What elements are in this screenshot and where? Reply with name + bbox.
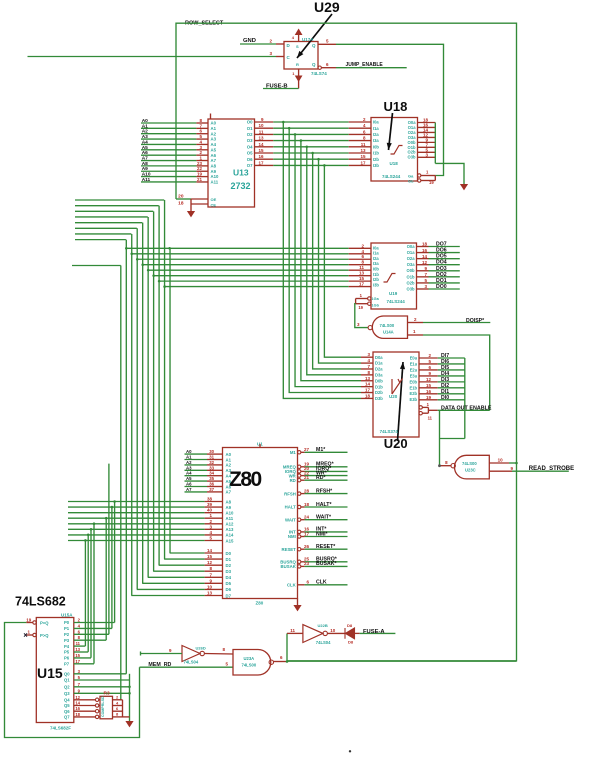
svg-text:GND: GND [243, 38, 256, 44]
svg-text:A12: A12 [226, 522, 234, 527]
svg-text:23: 23 [197, 161, 203, 166]
svg-text:I1b: I1b [373, 272, 379, 277]
svg-text:O2a: O2a [407, 256, 415, 261]
svg-text:U29: U29 [314, 0, 340, 15]
svg-text:Q: Q [312, 62, 316, 67]
svg-text:A7: A7 [142, 156, 148, 162]
svg-text:19: 19 [358, 305, 363, 310]
svg-text:U19: U19 [389, 291, 398, 296]
svg-text:38: 38 [207, 497, 213, 502]
svg-text:39: 39 [207, 502, 213, 507]
svg-text:U15: U15 [37, 665, 63, 681]
svg-text:2732: 2732 [231, 181, 251, 191]
svg-text:Gb: Gb [408, 179, 414, 184]
svg-text:U20: U20 [389, 394, 398, 399]
svg-text:15: 15 [359, 276, 365, 281]
svg-text:32: 32 [209, 460, 214, 465]
svg-text:A10: A10 [142, 172, 151, 178]
svg-text:15: 15 [207, 554, 213, 559]
svg-text:E1b: E1b [409, 385, 417, 390]
svg-text:17: 17 [365, 388, 371, 393]
svg-text:A5: A5 [186, 476, 192, 481]
svg-text:36: 36 [209, 482, 214, 487]
svg-text:19: 19 [26, 618, 32, 623]
svg-text:14: 14 [422, 254, 428, 259]
svg-text:I3a: I3a [373, 261, 379, 266]
svg-text:1Ga: 1Ga [372, 297, 380, 301]
svg-text:I0a: I0a [373, 245, 379, 250]
svg-text:A15: A15 [226, 538, 234, 543]
svg-text:O2b: O2b [407, 280, 415, 285]
svg-text:I0b: I0b [373, 144, 379, 149]
svg-text:D8: D8 [347, 623, 353, 628]
svg-text:D8: D8 [348, 640, 354, 645]
svg-text:RFSH: RFSH [284, 491, 296, 496]
svg-text:A2: A2 [226, 463, 232, 468]
svg-text:U20: U20 [384, 436, 408, 451]
svg-text:A5: A5 [211, 147, 217, 152]
svg-text:O1a: O1a [407, 250, 415, 255]
svg-text:13: 13 [75, 647, 80, 652]
svg-text:74LS374: 74LS374 [380, 429, 399, 434]
svg-text:16: 16 [426, 389, 432, 394]
svg-text:JUMP_ENABLE: JUMP_ENABLE [346, 62, 384, 68]
svg-text:D2b: D2b [375, 390, 383, 395]
svg-text:A9: A9 [211, 169, 217, 174]
svg-text:A1: A1 [226, 457, 232, 462]
svg-text:17: 17 [258, 160, 264, 165]
svg-text:74LS00: 74LS00 [462, 461, 477, 466]
svg-text:74LS04: 74LS04 [316, 640, 331, 645]
svg-text:12: 12 [207, 560, 213, 565]
svg-text:U23A: U23A [244, 656, 255, 661]
svg-text:E3a: E3a [410, 373, 418, 378]
svg-text:I0a: I0a [373, 120, 379, 125]
svg-text:22: 22 [197, 166, 203, 171]
svg-text:16: 16 [258, 154, 264, 159]
svg-text:I2b: I2b [373, 157, 379, 162]
svg-text:O5: O5 [247, 151, 253, 156]
svg-text:28: 28 [304, 488, 310, 493]
svg-text:NMI*: NMI* [316, 531, 329, 537]
svg-text:U22B: U22B [318, 623, 328, 628]
svg-text:10: 10 [330, 628, 336, 633]
svg-text:19: 19 [426, 395, 432, 400]
svg-text:R: R [296, 62, 299, 67]
svg-text:Q2: Q2 [64, 685, 70, 690]
svg-text:O3b: O3b [407, 286, 415, 291]
svg-text:A2: A2 [186, 460, 192, 465]
svg-text:CLK: CLK [316, 580, 327, 586]
svg-text:U23C: U23C [465, 468, 476, 473]
svg-text:74LS682F: 74LS682F [50, 726, 71, 731]
svg-text:E2a: E2a [410, 367, 418, 372]
svg-text:17: 17 [359, 282, 365, 287]
svg-text:RFSH*: RFSH* [316, 488, 333, 494]
svg-text:P0: P0 [64, 620, 70, 625]
svg-text:74LS00: 74LS00 [242, 663, 257, 668]
svg-text:RD*: RD* [316, 475, 326, 481]
svg-text:NMI: NMI [288, 534, 296, 539]
svg-text:Q3: Q3 [64, 691, 70, 696]
svg-text:D2a: D2a [375, 367, 383, 372]
svg-text:O1: O1 [247, 126, 253, 131]
svg-text:D0a: D0a [375, 355, 383, 360]
svg-text:A4: A4 [142, 139, 148, 145]
svg-text:Q7: Q7 [64, 715, 70, 720]
svg-text:FUSE-A: FUSE-A [363, 629, 385, 635]
svg-text:D7: D7 [226, 593, 232, 598]
svg-text:11: 11 [361, 142, 366, 147]
svg-text:A0: A0 [211, 121, 217, 126]
svg-text:P5: P5 [64, 650, 70, 655]
svg-text:12: 12 [426, 377, 432, 382]
svg-text:P=Q: P=Q [40, 621, 49, 626]
svg-text:13: 13 [258, 136, 264, 141]
svg-text:Q0: Q0 [64, 672, 70, 677]
svg-text:D5: D5 [226, 581, 232, 586]
svg-text:18: 18 [178, 201, 184, 207]
svg-text:A10: A10 [226, 510, 234, 515]
svg-text:13: 13 [207, 590, 213, 595]
svg-text:DATA OUT ENABLE: DATA OUT ENABLE [441, 406, 492, 412]
svg-text:D3b: D3b [375, 396, 383, 401]
svg-text:A7: A7 [226, 490, 232, 495]
svg-text:I0b: I0b [373, 266, 379, 271]
svg-text:A1: A1 [211, 126, 217, 131]
svg-text:12: 12 [75, 695, 80, 700]
svg-text:A3: A3 [211, 137, 217, 142]
svg-text:HALT: HALT [285, 505, 297, 510]
svg-text:D3: D3 [226, 569, 232, 574]
svg-text:13: 13 [360, 148, 366, 153]
svg-text:A2: A2 [211, 131, 217, 136]
svg-text:A9: A9 [226, 505, 232, 510]
svg-text:A8: A8 [142, 161, 148, 167]
svg-text:A10: A10 [211, 174, 219, 179]
svg-text:A7: A7 [211, 158, 217, 163]
svg-text:O0a: O0a [407, 244, 415, 249]
svg-text:A6: A6 [211, 153, 217, 158]
svg-text:26: 26 [304, 544, 310, 549]
svg-text:COMPRLSD: COMPRLSD [101, 696, 105, 717]
svg-text:E0a: E0a [410, 355, 418, 360]
svg-text:O3b: O3b [408, 155, 416, 160]
svg-text:A3: A3 [186, 465, 192, 470]
svg-text:Q6: Q6 [64, 709, 70, 714]
svg-text:10: 10 [207, 584, 213, 589]
svg-text:14: 14 [258, 142, 264, 147]
svg-text:I3b: I3b [373, 282, 379, 287]
svg-text:I1b: I1b [373, 151, 379, 156]
svg-text:A8: A8 [211, 163, 217, 168]
svg-text:CE: CE [211, 203, 217, 208]
svg-text:11: 11 [428, 416, 433, 421]
svg-text:74LS682: 74LS682 [15, 595, 66, 609]
svg-text:74LS244: 74LS244 [387, 299, 406, 304]
svg-text:P>Q: P>Q [40, 633, 49, 638]
svg-text:Z80: Z80 [229, 468, 262, 491]
svg-text:I2a: I2a [373, 132, 379, 137]
svg-text:74LS244: 74LS244 [382, 174, 401, 179]
svg-text:I1a: I1a [373, 251, 379, 256]
svg-text:A4: A4 [211, 142, 217, 147]
svg-text:19: 19 [429, 180, 434, 185]
svg-text:D3a: D3a [375, 372, 383, 377]
svg-text:10: 10 [498, 458, 504, 463]
svg-text:D0: D0 [226, 551, 232, 556]
svg-text:A3: A3 [226, 468, 232, 473]
svg-text:P4: P4 [64, 644, 70, 649]
svg-text:HALT*: HALT* [316, 502, 332, 508]
svg-text:WAIT: WAIT [285, 517, 296, 522]
svg-text:35: 35 [209, 476, 214, 481]
svg-text:18: 18 [422, 242, 428, 247]
svg-text:17: 17 [360, 160, 366, 165]
svg-text:15: 15 [426, 383, 432, 388]
svg-text:10: 10 [258, 123, 264, 128]
svg-text:13: 13 [359, 271, 365, 276]
svg-text:11: 11 [290, 628, 295, 633]
svg-text:A6: A6 [186, 482, 192, 487]
svg-text:U14A: U14A [383, 330, 394, 335]
svg-text:16: 16 [422, 248, 428, 253]
svg-text:13: 13 [365, 376, 371, 381]
svg-text:24: 24 [304, 515, 310, 520]
svg-text:E1a: E1a [410, 361, 418, 366]
svg-text:A0: A0 [226, 452, 232, 457]
svg-text:16: 16 [75, 706, 80, 711]
svg-text:U13: U13 [233, 168, 249, 178]
svg-text:A1: A1 [142, 123, 148, 129]
svg-text:A13: A13 [226, 527, 234, 532]
svg-text:34: 34 [209, 471, 214, 476]
svg-text:U15A: U15A [61, 612, 73, 617]
svg-text:14: 14 [75, 701, 80, 706]
svg-text:11: 11 [359, 265, 364, 270]
svg-text:37: 37 [209, 487, 214, 492]
svg-text:21: 21 [197, 177, 203, 182]
svg-text:A11: A11 [226, 516, 234, 521]
svg-text:P1: P1 [64, 626, 70, 631]
svg-text:O3a: O3a [407, 262, 415, 267]
svg-text:I3a: I3a [373, 138, 379, 143]
svg-text:R3: R3 [104, 691, 110, 697]
svg-text:A5: A5 [142, 145, 148, 151]
svg-text:D6: D6 [226, 587, 232, 592]
svg-text:A0: A0 [142, 118, 148, 124]
svg-text:D2: D2 [226, 563, 232, 568]
svg-text:E2b: E2b [409, 391, 417, 396]
svg-text:A11: A11 [142, 177, 151, 183]
svg-text:21: 21 [304, 475, 310, 480]
svg-text:P6: P6 [64, 656, 70, 661]
svg-text:D1a: D1a [375, 361, 383, 366]
svg-text:33: 33 [209, 465, 214, 470]
svg-text:A9: A9 [142, 166, 148, 172]
svg-text:E0b: E0b [409, 379, 417, 384]
svg-text:A14: A14 [226, 533, 234, 538]
svg-text:19: 19 [197, 172, 203, 177]
svg-text:CLK: CLK [287, 583, 297, 588]
svg-text:A1: A1 [186, 455, 192, 460]
svg-text:11: 11 [76, 641, 81, 646]
svg-text:14: 14 [365, 382, 371, 387]
svg-text:O1b: O1b [407, 274, 415, 279]
svg-text:I3b: I3b [373, 163, 379, 168]
svg-text:Q5: Q5 [64, 703, 70, 708]
svg-text:A4: A4 [186, 471, 192, 476]
svg-text:O7: O7 [247, 163, 253, 168]
svg-text:O4: O4 [247, 144, 253, 149]
svg-text:74LS00: 74LS00 [380, 323, 395, 328]
svg-text:17: 17 [75, 659, 80, 664]
svg-text:14: 14 [207, 548, 213, 553]
svg-text:A6: A6 [142, 150, 148, 156]
svg-text:O2: O2 [247, 132, 253, 137]
svg-text:RESET: RESET [281, 547, 296, 552]
svg-text:U26D: U26D [196, 646, 206, 651]
svg-text:12: 12 [422, 260, 428, 265]
svg-text:Q4: Q4 [64, 698, 70, 703]
svg-text:31: 31 [209, 455, 214, 460]
svg-text:M1*: M1* [316, 447, 326, 453]
svg-text:O6: O6 [247, 157, 253, 162]
svg-text:I1a: I1a [373, 126, 379, 131]
svg-text:M1: M1 [290, 450, 297, 455]
svg-text:O0: O0 [247, 120, 253, 125]
svg-text:I2a: I2a [373, 256, 379, 261]
svg-text:1Gb: 1Gb [372, 304, 380, 308]
svg-text:P3: P3 [64, 638, 70, 643]
svg-text:O0b: O0b [407, 268, 415, 273]
svg-text:A4: A4 [226, 474, 232, 479]
svg-text:Q: Q [312, 43, 316, 48]
svg-text:U17A: U17A [302, 37, 314, 42]
svg-text:A0: A0 [186, 449, 192, 454]
svg-text:DO0: DO0 [436, 284, 447, 290]
svg-text:D0b: D0b [375, 378, 383, 383]
svg-text:D4: D4 [226, 575, 232, 580]
svg-text:11: 11 [259, 129, 264, 134]
svg-text:BUSAK*: BUSAK* [316, 561, 337, 567]
svg-text:Z80: Z80 [256, 601, 264, 606]
svg-text:15: 15 [75, 653, 80, 658]
svg-text:Q1: Q1 [64, 678, 70, 683]
svg-text:I2b: I2b [373, 277, 379, 282]
svg-text:15: 15 [360, 154, 366, 159]
svg-text:A6: A6 [226, 484, 232, 489]
svg-text:A11: A11 [211, 180, 219, 185]
svg-text:U18: U18 [390, 161, 399, 166]
svg-text:D1: D1 [226, 557, 232, 562]
svg-text:RESET*: RESET* [316, 544, 336, 550]
svg-text:74LS74: 74LS74 [311, 71, 327, 76]
svg-text:A8: A8 [226, 499, 232, 504]
svg-text:A5: A5 [226, 479, 232, 484]
svg-text:U18: U18 [384, 99, 408, 114]
svg-text:S: S [296, 44, 299, 49]
svg-text:40: 40 [207, 508, 213, 513]
svg-text:DOISP*: DOISP* [466, 318, 485, 324]
svg-text:18: 18 [304, 502, 310, 507]
svg-text:A3: A3 [142, 134, 148, 140]
svg-text:OE: OE [211, 197, 217, 202]
svg-text:P7: P7 [64, 662, 70, 667]
svg-text:A2: A2 [142, 129, 148, 135]
svg-text:17: 17 [304, 531, 310, 536]
svg-text:74LS04: 74LS04 [184, 659, 199, 664]
svg-text:18: 18 [75, 712, 80, 717]
svg-text:E3b: E3b [409, 397, 417, 402]
svg-text:A7: A7 [186, 487, 192, 492]
svg-text:P2: P2 [64, 632, 70, 637]
svg-text:DI0: DI0 [441, 395, 449, 401]
svg-text:18: 18 [365, 393, 371, 398]
svg-text:15: 15 [258, 148, 264, 153]
svg-text:BUSAK: BUSAK [281, 564, 297, 569]
svg-text:READ_STROBE: READ_STROBE [529, 466, 574, 472]
svg-text:WAIT*: WAIT* [316, 515, 332, 521]
svg-text:O3: O3 [247, 138, 253, 143]
svg-text:D1b: D1b [375, 384, 383, 389]
svg-text:30: 30 [209, 449, 214, 454]
svg-text:RD: RD [290, 478, 296, 483]
svg-text:27: 27 [304, 447, 310, 452]
svg-text:23: 23 [304, 561, 310, 566]
